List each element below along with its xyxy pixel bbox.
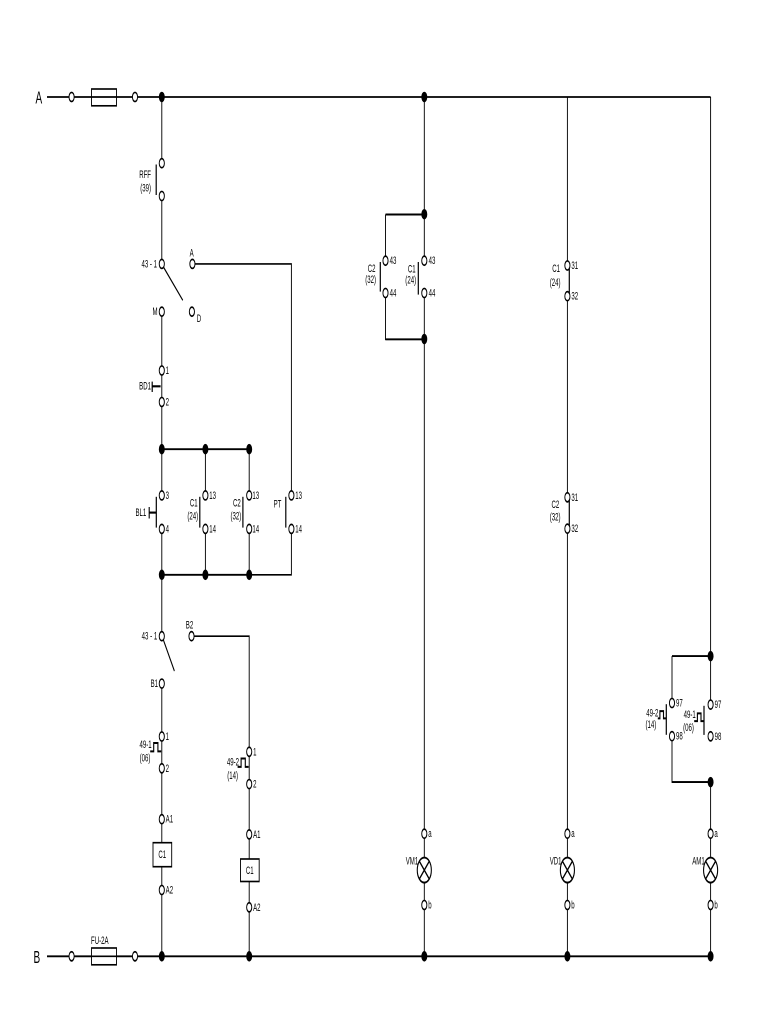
contact BD1 terminal 2 bbox=[159, 397, 164, 406]
svg-text:98: 98 bbox=[676, 730, 683, 742]
svg-text:4: 4 bbox=[166, 523, 169, 535]
junction row 2 left bbox=[159, 570, 165, 581]
wire: bus A down to contact C1 (VD1) bbox=[566, 97, 568, 261]
switch 43-1 position B2 terminal bbox=[189, 632, 194, 641]
svg-text:a: a bbox=[428, 827, 431, 839]
svg-text:(24): (24) bbox=[187, 510, 198, 522]
contact C1(24) terminal 13 bbox=[203, 491, 208, 500]
thermal contact 49-1 pair terminal 98 bbox=[708, 732, 713, 741]
svg-text:(39): (39) bbox=[140, 181, 151, 193]
terminal circle on bus B (left) bbox=[69, 952, 74, 961]
contact C1(24) pair terminal 44 bbox=[422, 288, 427, 297]
junction: bus B / VM1 column bbox=[421, 951, 427, 962]
svg-text:43 - 1: 43 - 1 bbox=[142, 630, 158, 642]
svg-text:(32): (32) bbox=[365, 273, 376, 285]
svg-text:14: 14 bbox=[252, 523, 259, 535]
contact PT terminal 13 bbox=[289, 491, 294, 500]
contact C2(32) pair terminal 43 bbox=[383, 256, 388, 265]
switch 43-1 common terminal bbox=[159, 259, 164, 268]
coil C1 (second contactor) bbox=[240, 859, 259, 881]
contact BL1 actuator tick bbox=[149, 512, 156, 514]
svg-text:AM1: AM1 bbox=[692, 854, 705, 866]
svg-text:43: 43 bbox=[390, 254, 397, 266]
wire: bus A to contact RFF bbox=[161, 97, 163, 159]
svg-text:PT: PT bbox=[274, 498, 282, 510]
svg-text:C2: C2 bbox=[552, 498, 560, 510]
svg-text:A: A bbox=[190, 247, 194, 259]
contact PT terminal 14 bbox=[289, 524, 294, 533]
wire: C2 to lamp VD1 bbox=[566, 533, 568, 829]
wire: C1 aux branch lower bbox=[204, 533, 206, 574]
thermal contact 49-2 pair terminal 98 bbox=[669, 732, 674, 741]
coil C1 (second) terminal A2 bbox=[247, 903, 252, 912]
wire between 49-2 terminals bbox=[248, 756, 250, 779]
switch 43-1 position D terminal bbox=[189, 307, 194, 316]
contact C2(32) VD1 bar bbox=[568, 500, 570, 526]
wire: AM1 pair to lamp bbox=[710, 782, 712, 829]
svg-text:2: 2 bbox=[166, 762, 169, 774]
svg-text:BD1: BD1 bbox=[139, 379, 151, 391]
contact BD1 terminal 1 bbox=[159, 366, 164, 375]
svg-text:A2: A2 bbox=[253, 901, 261, 913]
lamp VD1 terminal a bbox=[565, 829, 570, 838]
svg-text:a: a bbox=[571, 827, 574, 839]
terminal circle on bus A (right) bbox=[132, 92, 137, 101]
contact RFF terminal (top) bbox=[159, 159, 164, 168]
lamp AM1 terminal a bbox=[708, 829, 713, 838]
svg-text:C1: C1 bbox=[246, 864, 254, 876]
svg-text:44: 44 bbox=[390, 287, 397, 299]
junction: VM1 pair top bbox=[421, 209, 427, 220]
wire: coil to terminal A2 (col2) bbox=[248, 881, 250, 902]
svg-text:49-1: 49-1 bbox=[139, 738, 151, 750]
contact BL1 actuator bar bbox=[148, 507, 150, 519]
svg-text:13: 13 bbox=[209, 489, 216, 501]
thermal element symbol 49-2 pair bbox=[658, 711, 666, 718]
svg-text:49-1: 49-1 bbox=[684, 708, 696, 720]
wire: top bus A bbox=[47, 96, 711, 98]
svg-text:(06): (06) bbox=[140, 752, 151, 764]
svg-text:b: b bbox=[571, 899, 574, 911]
wire: VM1 pair top link bbox=[386, 213, 425, 215]
svg-text:97: 97 bbox=[715, 698, 722, 710]
contact BL1 terminal 4 bbox=[159, 524, 164, 533]
contact C2(32) terminal 14 bbox=[247, 524, 252, 533]
thermal contact 49-2 terminal 2 bbox=[247, 780, 252, 789]
lamp AM1 terminal b bbox=[708, 900, 713, 909]
svg-text:3: 3 bbox=[166, 489, 169, 501]
thermal element symbol 49-1 pair bbox=[694, 713, 704, 721]
thermal contact 49-1 terminal 1 bbox=[159, 732, 164, 741]
thermal contact 49-2 pair terminal 97 bbox=[669, 698, 674, 707]
wire: node row 2 horizontal bbox=[162, 574, 249, 576]
contact BD1 actuator tick bbox=[152, 385, 160, 387]
wire: VM1 pair left upper bbox=[385, 214, 387, 256]
svg-text:C1: C1 bbox=[190, 497, 198, 509]
contact C2(32) bar bbox=[242, 497, 244, 528]
wire: a to lamp VD1 bbox=[566, 838, 568, 857]
contact RFF terminal (bottom) bbox=[159, 191, 164, 200]
junction: AM1 pair top bbox=[708, 651, 714, 662]
wire: a to lamp AM1 bbox=[710, 838, 712, 857]
thermal contact 49-1 pair terminal 97 bbox=[708, 700, 713, 709]
wire: BL1 to node row 2 bbox=[161, 533, 163, 574]
wire: C1 aux branch upper bbox=[204, 449, 206, 491]
svg-text:C2: C2 bbox=[233, 497, 241, 509]
contact C1(24) terminal 14 bbox=[203, 524, 208, 533]
svg-text:M: M bbox=[153, 305, 158, 317]
lamp VM1 terminal b bbox=[422, 900, 427, 909]
wire between 49-1 terminals bbox=[161, 741, 163, 764]
wire: VM1 pair to lamp bbox=[423, 339, 425, 829]
svg-text:A1: A1 bbox=[253, 828, 261, 840]
junction row 2 right bbox=[246, 570, 252, 581]
switch 43-1 lower common terminal bbox=[159, 632, 164, 641]
svg-text:1: 1 bbox=[166, 364, 169, 376]
contact C1(24) VD1 terminal 32 bbox=[565, 292, 570, 301]
junction row 2 middle bbox=[202, 570, 208, 581]
wire: node row 1 horizontal bbox=[162, 448, 249, 450]
svg-text:(24): (24) bbox=[550, 276, 561, 288]
wire: bus A down to VM1 pair bbox=[423, 97, 425, 215]
svg-text:BL1: BL1 bbox=[136, 506, 147, 518]
thermal contact 49-1 terminal 2 bbox=[159, 764, 164, 773]
wire: row 2 to lower switch 43-1 bbox=[161, 575, 163, 632]
svg-text:49-2: 49-2 bbox=[646, 707, 658, 719]
wire: lamp AM1 to b bbox=[710, 883, 712, 900]
contact BD1 actuator bar bbox=[151, 382, 153, 392]
wire: lamp VM1 to b bbox=[423, 883, 425, 900]
wire: RFF to switch 43-1 bbox=[161, 201, 163, 260]
lamp VM1 terminal a bbox=[422, 829, 427, 838]
junction: bus B / column 1 bbox=[159, 951, 165, 962]
thermal 49-1 pair bar bbox=[703, 706, 705, 735]
wire: 49-1 to terminal A1 bbox=[161, 773, 163, 815]
wire: a to lamp VM1 bbox=[423, 838, 425, 857]
junction: bus A / column 1 bbox=[159, 92, 165, 103]
contact C2(32) terminal 13 bbox=[247, 491, 252, 500]
wire: A2 to bus B bbox=[161, 895, 163, 957]
svg-text:FU-2A: FU-2A bbox=[91, 934, 109, 946]
junction: bus B / VD1 column bbox=[564, 951, 570, 962]
wire: PT to node row 2 bbox=[249, 533, 291, 574]
svg-text:b: b bbox=[714, 899, 717, 911]
svg-text:(32): (32) bbox=[550, 511, 561, 523]
wire: AM1 pair right upper bbox=[710, 656, 712, 700]
svg-text:43: 43 bbox=[429, 254, 436, 266]
svg-text:a: a bbox=[714, 827, 717, 839]
terminal circle on bus A (left) bbox=[69, 92, 74, 101]
wire: BD1 to node row 1 bbox=[161, 407, 163, 450]
wire: C2 aux branch lower bbox=[248, 533, 250, 574]
svg-text:A1: A1 bbox=[166, 813, 174, 825]
contact C2(32) pair terminal 44 bbox=[383, 288, 388, 297]
svg-text:A: A bbox=[36, 89, 43, 109]
wire: position M to contact BD1 bbox=[161, 316, 163, 366]
switch 43-1 position A terminal bbox=[190, 259, 195, 268]
thermal 49-2 pair bar bbox=[665, 704, 667, 735]
wire: bottom bus B bbox=[47, 955, 711, 957]
svg-text:RFF: RFF bbox=[139, 168, 151, 180]
lamp VM1 bbox=[417, 858, 431, 883]
svg-text:B2: B2 bbox=[186, 619, 194, 631]
wire: b to bus B (AM1) bbox=[710, 910, 712, 957]
svg-text:C1: C1 bbox=[158, 848, 166, 860]
svg-text:98: 98 bbox=[715, 730, 722, 742]
wire: VM1 pair bottom link bbox=[386, 338, 425, 340]
svg-text:1: 1 bbox=[166, 730, 169, 742]
contact RFF bar bbox=[155, 164, 157, 195]
coil C1 terminal A2 bbox=[159, 885, 164, 894]
svg-text:14: 14 bbox=[209, 523, 216, 535]
wire: A2 to bus B (col2) bbox=[248, 912, 250, 956]
wire: 49-2 to terminal A1 (col2) bbox=[248, 789, 250, 830]
lamp AM1 bbox=[704, 858, 718, 883]
wire: C1 to C2 (VD1) bbox=[566, 301, 568, 493]
svg-text:1: 1 bbox=[253, 745, 256, 757]
svg-text:31: 31 bbox=[571, 259, 578, 271]
junction row 1 middle bbox=[202, 444, 208, 455]
wire: AM1 pair bottom link bbox=[672, 781, 711, 783]
svg-text:VM1: VM1 bbox=[406, 854, 419, 866]
svg-text:A2: A2 bbox=[166, 884, 174, 896]
contact BL1 bar bbox=[155, 497, 157, 528]
svg-text:(14): (14) bbox=[646, 718, 657, 730]
wire: B1 to thermal contact 49-1 bbox=[161, 688, 163, 732]
coil C1 (second) terminal A1 bbox=[247, 830, 252, 839]
svg-text:97: 97 bbox=[676, 697, 683, 709]
svg-text:49-2: 49-2 bbox=[227, 756, 239, 768]
wire: coil C1 to terminal A2 bbox=[161, 867, 163, 886]
switch 43-1 lower blade bbox=[163, 640, 174, 671]
wire: VM1 pair left lower bbox=[386, 298, 425, 340]
coil C1 (contactor) bbox=[153, 843, 172, 867]
wire: VM1 pair right lower bbox=[423, 298, 425, 340]
junction row 1 right bbox=[246, 444, 252, 455]
wire: position A to contact PT column bbox=[195, 264, 291, 491]
switch 43-1 position M terminal bbox=[159, 307, 164, 316]
wire: bus A corner down (AM1) bbox=[710, 97, 712, 656]
svg-text:44: 44 bbox=[429, 287, 436, 299]
junction: bus B / column 2 bbox=[246, 951, 252, 962]
junction: VM1 pair bottom bbox=[421, 334, 427, 345]
svg-text:43 - 1: 43 - 1 bbox=[141, 257, 157, 269]
contact C2(32) pair bar bbox=[379, 262, 381, 292]
wire: C2 aux branch upper bbox=[248, 449, 250, 491]
svg-text:b: b bbox=[428, 899, 431, 911]
contact C1(24) VD1 terminal 31 bbox=[565, 261, 570, 270]
svg-text:32: 32 bbox=[571, 522, 578, 534]
switch 43-1 position B1 terminal bbox=[159, 679, 164, 688]
coil C1 terminal A1 bbox=[159, 815, 164, 824]
wire between BD1 terminals bbox=[161, 375, 163, 397]
thermal contact 49-2 terminal 1 bbox=[247, 747, 252, 756]
svg-text:2: 2 bbox=[166, 396, 169, 408]
svg-text:(14): (14) bbox=[227, 769, 238, 781]
wire: b to bus B (VM1) bbox=[423, 910, 425, 957]
junction row 1 left bbox=[159, 444, 165, 455]
junction: bus A / VM1 column bbox=[421, 92, 427, 103]
contact PT bar bbox=[285, 497, 287, 528]
svg-text:(32): (32) bbox=[231, 510, 242, 522]
wire: lamp VD1 to b bbox=[566, 883, 568, 900]
junction: bus B / AM1 column bbox=[708, 951, 714, 962]
contact C1(24) bar bbox=[199, 497, 201, 528]
svg-text:2: 2 bbox=[253, 778, 256, 790]
contact C2(32) VD1 terminal 32 bbox=[565, 524, 570, 533]
contact C1(24) pair terminal 43 bbox=[422, 256, 427, 265]
svg-text:B: B bbox=[34, 948, 41, 968]
lamp VD1 terminal b bbox=[565, 900, 570, 909]
wire: VM1 pair right upper bbox=[423, 214, 425, 256]
switch 43-1 blade bbox=[164, 268, 183, 301]
wire: A1 to coil C1 bbox=[161, 824, 163, 843]
svg-text:(24): (24) bbox=[405, 274, 416, 286]
svg-text:13: 13 bbox=[295, 489, 302, 501]
wire: AM1 pair top link bbox=[672, 655, 711, 657]
thermal element symbol 49-1 bbox=[150, 743, 161, 751]
svg-text:13: 13 bbox=[252, 489, 259, 501]
svg-text:14: 14 bbox=[295, 523, 302, 535]
wire: b to bus B (VD1) bbox=[566, 910, 568, 957]
thermal element symbol 49-2 bbox=[238, 758, 249, 766]
contact C1(24) pair bar bbox=[417, 262, 419, 295]
lamp VD1 bbox=[560, 858, 574, 883]
fuse FU-2A bbox=[92, 948, 117, 965]
fuse FU-1 (top, unlabeled) bbox=[92, 89, 117, 106]
contact C1(24) VD1 bar bbox=[568, 268, 570, 294]
wire: AM1 pair left lower bbox=[672, 741, 711, 782]
contact BL1 terminal 3 bbox=[159, 491, 164, 500]
terminal circle on bus B (right) bbox=[132, 952, 137, 961]
svg-text:C1: C1 bbox=[552, 262, 560, 274]
svg-text:32: 32 bbox=[571, 290, 578, 302]
wire: B2 to column 2 bbox=[194, 636, 249, 747]
wire: row 1 to contact BL1 bbox=[161, 449, 163, 491]
wire: AM1 pair left upper bbox=[671, 656, 673, 698]
svg-text:VD1: VD1 bbox=[550, 854, 562, 866]
svg-text:D: D bbox=[197, 312, 201, 324]
junction: AM1 pair bottom bbox=[708, 777, 714, 788]
svg-text:B1: B1 bbox=[151, 677, 159, 689]
wire: A1 to coil (col2) bbox=[248, 839, 250, 859]
svg-text:31: 31 bbox=[571, 491, 578, 503]
contact C2(32) VD1 terminal 31 bbox=[565, 493, 570, 502]
svg-text:(06): (06) bbox=[683, 721, 694, 733]
